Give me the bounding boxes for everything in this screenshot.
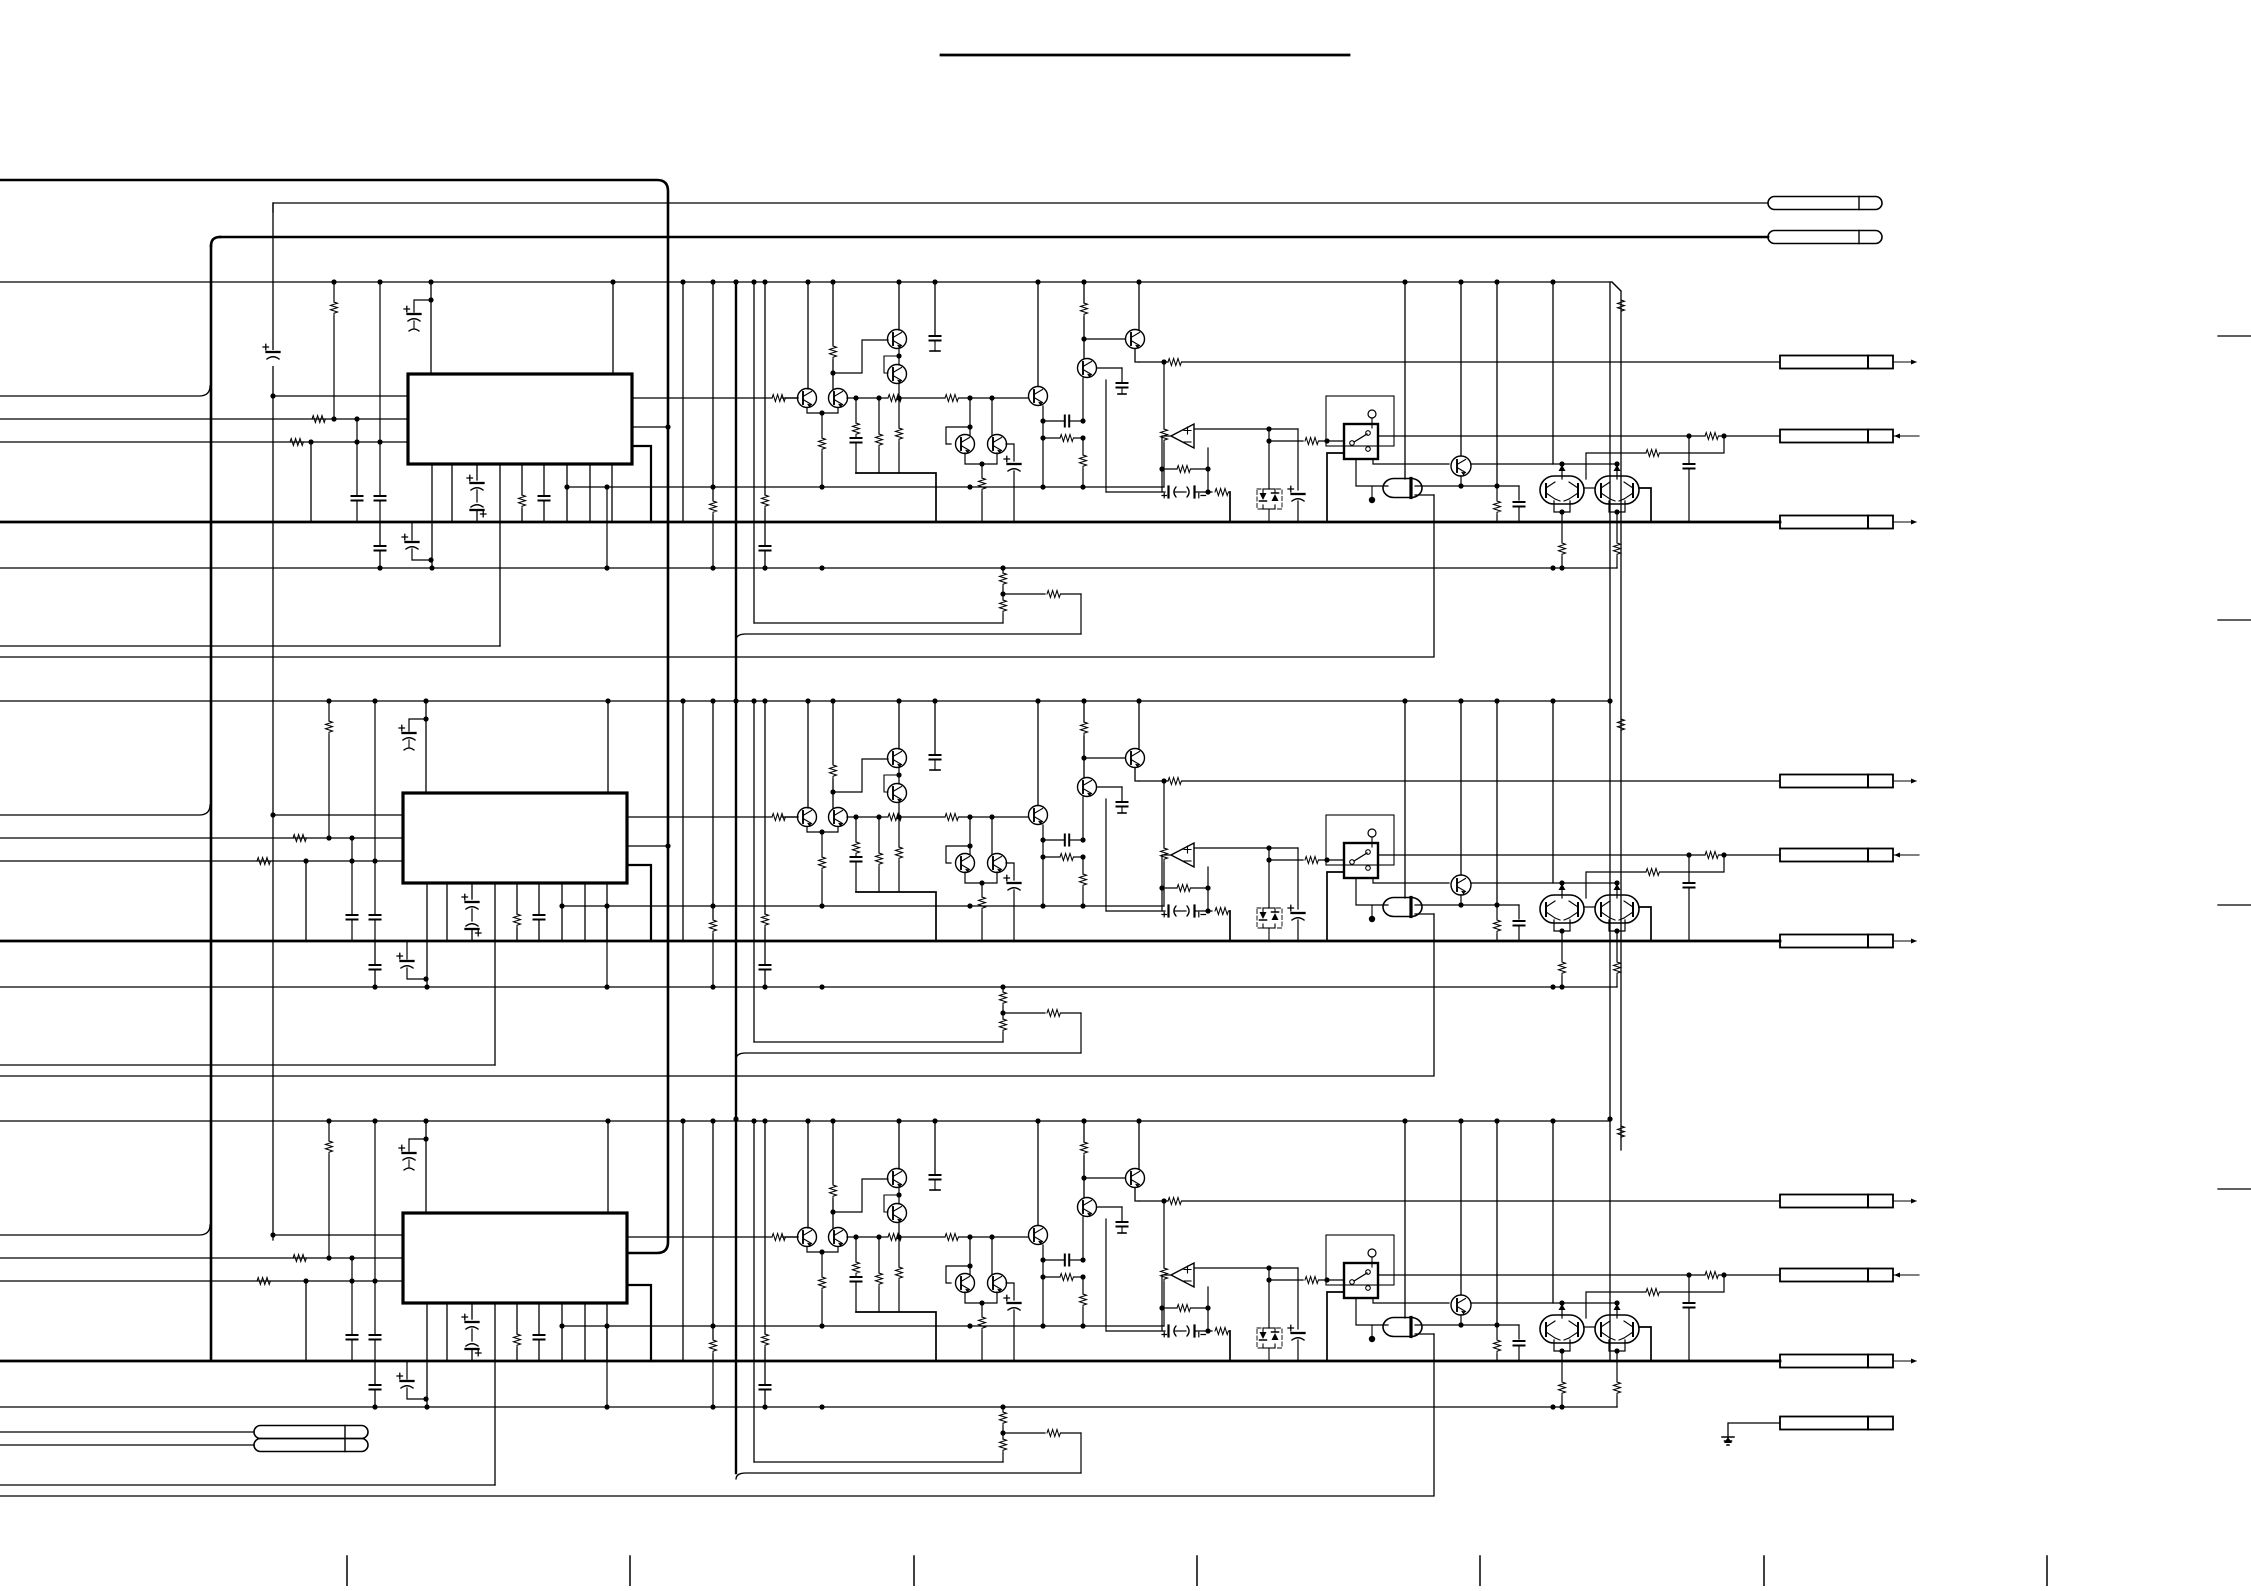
ch1 Q5 loop [946,424,973,444]
ch1 ecap x1014 [1004,456,1021,522]
ch3 Q6 right [1006,1283,1014,1300]
ch1 Q1 [888,330,907,349]
ch2 sw outer [1326,815,1394,865]
ch1 rail xq10 [1550,279,1565,479]
ch2 out3 [627,865,651,941]
ch1 rail x754 [751,279,756,623]
ch3 opamp U [1171,1263,1194,1287]
ch2 pin b2 [446,883,448,941]
connector P5 bottom right [1780,1417,1893,1430]
ch2 rail Q7c [1035,698,1040,805]
ch2 thick elbow [856,892,936,941]
ch1 q10 q11 link [1584,487,1595,489]
ch1 rail x713 [710,279,717,570]
ch2 out2 [627,843,671,848]
ch2 rail Q1 [896,698,901,749]
ch2 rail x683 [680,698,685,941]
ch2 sw bottom [1356,878,1388,922]
ch3 fb loop r [1586,1275,1724,1318]
ch2 Q11 down [1609,920,1625,941]
connector P1 top [1768,197,1882,210]
ch2 cap stub x935 [930,698,941,770]
node dot 1610/701 [1607,698,1612,703]
ch3 rail Q4 [830,1118,837,1228]
ch1 pin b5 [519,464,526,522]
fold mark 1 [2218,335,2251,337]
ch1 Q34 join [807,408,838,487]
ch3 Q7 emitter [1080,1217,1087,1326]
ch3 rail xq10 [1550,1118,1565,1318]
connector P4 [254,1439,368,1452]
ruler tick 7 [2046,1556,2048,1586]
ch3 ecap x1298 [1288,1268,1305,1361]
ch3 wire in1 [0,1225,210,1235]
ch1 tail3 [0,645,500,647]
ch2 conn3 [1780,935,1917,948]
ch3 wire in1b [270,1232,403,1237]
ch2 hook inner [754,1041,1003,1043]
ch1 out1 [632,395,798,402]
ch3 Q11 thick [1639,1327,1651,1361]
ch2 opamp in+ [1194,845,1298,850]
ch3 sw outer [1326,1235,1394,1285]
ch1 hook inner [754,622,1003,624]
ch1 q12 link [830,340,888,376]
ch2 Q7 [1078,778,1097,797]
ch2 Q8 emitter [1135,768,1139,781]
ch2 rail Q6 [991,817,993,854]
ch3 opamp in+ [1194,1265,1298,1270]
ch2 conn1 [1780,775,1917,788]
ch2 GND bus [0,940,1780,943]
ch3 res below bus 2 [1614,1361,1621,1407]
ch2 sw out line [1378,852,1780,859]
ch3 out1 [627,1234,798,1241]
ch1 rail Q1 [896,279,901,330]
ch3 rail x380 [370,1118,381,1361]
ch1 ecap x1298 [1288,429,1305,522]
node dot 1610/1119 [1607,1116,1612,1121]
ch3 Q34 join [807,1247,838,1326]
ground [1722,1423,1780,1445]
ch3 Q2 [888,1204,907,1223]
ch2 Q9 left [1373,878,1615,883]
ch3 Q5 loop [946,1263,973,1283]
title underline [941,54,1349,57]
ch1 rail Q7 [1081,279,1088,358]
ch2 pin b9 [606,883,608,941]
ch2 rail x765 [762,698,769,941]
ch1 res below bus 2 [1614,522,1621,568]
ch1 Q6 right [1006,444,1014,461]
ch2 rail xq11 [1614,880,1621,898]
ch1 Q11 [1595,476,1639,504]
ch1 IC top pin2 [610,279,615,374]
ch2 rail xq10 [1550,698,1565,898]
ch1 base line [782,395,1028,402]
ch2 q10 q11 link [1584,906,1595,908]
ch3 pin b6 [534,1303,545,1361]
ch1 IC U1 [408,374,632,464]
ch3 node in3 [303,1278,308,1361]
ch1 Q12 join [884,348,902,373]
ch1 pin b6 [539,464,550,522]
ch2 Q7c [1029,806,1048,825]
ch2 res below bus 1 [1559,941,1566,990]
ch3 rail x1495 [1494,1118,1501,1361]
connector P2 top [1768,231,1882,244]
ch1 res below bus 1 [1559,522,1566,571]
ch2 rail Q8 [1136,698,1141,749]
ch2 Q56 join [965,872,997,941]
wire input B thick [220,236,1768,239]
ch1 tail2 [1000,591,1081,635]
ch3 Q3 [798,1228,817,1247]
ch3 rail Q1 [896,1118,901,1169]
ch3 Q8 [1126,1169,1145,1188]
ch1 switch S [1344,410,1378,459]
ch2 tail2 [1000,1010,1081,1054]
ch3 IC U3 [403,1213,627,1303]
ch1 tail4 [0,495,1434,657]
ch1 rail Q7c [1035,279,1040,386]
series cap on net A [263,344,280,366]
ch2 IC top cap [399,698,429,793]
ch2 out line A [1139,778,1780,785]
ch3 sw gnd thick [1327,1292,1344,1361]
ch1 pin b2 [451,464,453,522]
ch2 top rail [0,700,1610,702]
ch3 conn1 [1780,1195,1917,1208]
ch3 IC top pin2 [605,1118,610,1213]
ch2 rail x1457 [1458,698,1463,875]
ch1 cap below bus x765 [760,522,771,568]
ch1 pin b8 [589,464,591,522]
ch2 IC top pin2 [605,698,610,793]
ch3 ecap bl2 [397,1361,426,1399]
ch2 rail x334 [326,698,333,840]
ch1 rail x683 [680,279,685,522]
ch3 IC top cap [399,1118,429,1213]
ch2 tail1 [0,984,1617,989]
connector P3 [254,1426,368,1439]
ch2 ecap bl2 [397,941,426,979]
ch3 rail xq11 [1614,1300,1621,1318]
ruler tick 1 [346,1556,348,1586]
ch1 Q2 [888,365,907,384]
ch1 res column 1164 [1161,359,1168,487]
ch2 Q5 [956,854,975,873]
ch3 rc block [1040,1245,1085,1326]
ch1 Q11 down [1609,501,1625,522]
ch2 sw line [1266,848,1344,908]
ch1 Q7c [1029,387,1048,406]
ch1 rc block [1040,406,1085,487]
ch3 rail Q6 [991,1237,993,1274]
ruler tick 2 [629,1556,631,1586]
ch2 Q3 [798,808,817,827]
ch3 switch S [1344,1249,1378,1298]
ch2 rail Q3 [805,698,810,808]
ch1 drop1 [851,398,862,473]
ch1 conn1 [1780,356,1917,369]
ch2 cap x1689 [1684,855,1695,941]
ch2 node in3 [303,858,308,941]
ch1 drop2 [876,398,883,473]
ch1 IC top cap [404,279,434,374]
ch1 dgate [1383,479,1422,498]
ch1 rail Q4 [830,279,837,389]
ch1 rail x1405 [1402,279,1407,479]
ch2 Q11 thick [1639,907,1651,941]
ch3 zener box [1257,1328,1282,1361]
ch3 base line [782,1234,1028,1241]
ch2 tail rescol [1000,984,1007,1042]
ch3 rail x357 [347,1255,358,1361]
ch3 Q9 left [1373,1298,1615,1303]
ch1 rail x765 [762,279,769,522]
ch1 dgate out [1415,476,1525,522]
ch1 Q9 [1451,456,1471,476]
ch3 pin b3 [462,1303,481,1361]
ch3 res column 1164 [1161,1198,1168,1326]
ch1 Q8 [1126,330,1145,349]
ch1 pin b3 [467,464,486,522]
ch2 fb loop r [1586,855,1724,898]
ch1 out line A [1139,359,1780,366]
ch2 rail x1405 [1402,698,1407,898]
ch1 out2 [632,424,671,429]
ch3 rail x683 [680,1118,685,1361]
ch2 pin b4 [494,883,496,1065]
ch1 rail x357 [352,416,363,522]
ch3 rail x754 [751,1118,756,1462]
ch2 pin b7 [559,883,564,941]
ch1 hook outer [736,634,1081,640]
ch2 line487 [562,903,1164,908]
ch3 opamp fb [1159,1275,1210,1331]
ch2 wire in1 [0,805,210,815]
ch2 Q2 down [896,802,903,892]
ch3 rail x334 [326,1118,333,1260]
ch2 wire in3 [0,858,403,865]
vertical rail x1610 [1609,282,1611,1360]
ch3 Q1 [888,1169,907,1188]
ch3 Q7c [1029,1226,1048,1245]
ch2 Q4 [829,808,848,827]
ch1 pin b1 [428,464,434,571]
ch2 base line [782,814,1028,821]
ch1 node in3 [308,439,313,522]
ch1 Q6 [988,435,1007,454]
ch2 pin b3 [462,883,481,941]
ch3 tail rescol [1000,1404,1007,1462]
fold mark 4 [2218,1188,2251,1190]
ch1 wire in2 [0,416,408,423]
ch2 rail Q7 [1081,698,1088,777]
ch2 Q9 [1451,875,1471,895]
ch2 Q6 [988,854,1007,873]
ch3 cap stub x1122 [1097,1207,1128,1233]
ch3 tail2 [1000,1430,1081,1474]
ch1 rail Q8 [1136,279,1141,330]
ch2 drop2 [876,817,883,892]
ch2 rail x1495 [1494,698,1501,941]
ch1 line487 [567,484,1164,489]
ch3 tail3 [0,1484,495,1486]
ch1 rail x1457 [1458,279,1463,456]
ch3 rail x1457 [1458,1118,1463,1295]
ch1 rail x334 [331,279,338,421]
ch1 Q5 [956,435,975,454]
ch1 zener box [1257,489,1282,522]
ch2 Q8 left [1081,755,1125,760]
vertical rail x736 thick [733,279,738,1473]
ch2 thick elbow2 [1229,911,1231,941]
ch1 opamp in+ [1194,426,1298,431]
ch3 Q10 [1540,1315,1584,1343]
ch1 Q8 left [1081,336,1125,341]
ch1 pin b9 [611,464,613,522]
ch2 Q2 [888,784,907,803]
ch1 wire in1 [0,386,210,396]
ch1 Q2 down [896,383,903,473]
ch3 Q11 down [1609,1340,1625,1361]
ch3 wire in2 [0,1255,403,1262]
ch3 top rail [0,1120,1610,1122]
ch1 Q9 left [1373,459,1615,464]
ch2 Q5 loop [946,843,973,863]
ch3 res below bus 1 [1559,1361,1566,1410]
ch2 Q10 down [1554,920,1570,941]
ch2 Q1 [888,749,907,768]
ch1 cap bl1 [375,522,386,571]
ch3 dgate out [1415,1315,1525,1361]
ch2 ecap x1014 [1004,875,1021,941]
ch2 opamp caps [1106,799,1230,917]
ch2 Q12 join [884,767,902,792]
ch1 GND bus [0,521,1780,524]
ch3 Q9 [1451,1295,1471,1315]
ch3 cap below bus x765 [760,1361,771,1407]
ch3 pin b7 [559,1303,564,1361]
ch3 rail Q7 [1081,1118,1088,1197]
ch2 drop1 [851,817,862,892]
ch3 Q8 left [1081,1175,1125,1180]
ch1 sw gnd thick [1327,453,1344,522]
ch2 rail x380 [370,698,381,941]
wire input A [273,203,1768,212]
ch1 cap stub x935 [930,279,941,351]
ch2 dgate out [1415,895,1525,941]
ch2 IC U2 [403,793,627,883]
ch2 Q8 [1126,749,1145,768]
ch2 Q6 right [1006,863,1014,880]
ch2 dgate [1383,898,1422,917]
ch3 Q2 down [896,1222,903,1312]
ch2 hook outer [736,1053,1081,1059]
ch3 pin b5 [514,1303,521,1361]
ch1 wire in3 [0,439,408,446]
ch1 tail1 [0,565,1617,570]
ch3 wire in3 [0,1278,403,1285]
ch1 Q8 emitter [1135,349,1139,362]
ch2 cap bl1 [370,941,381,990]
ch1 thick elbow [856,473,936,522]
ch3 thick elbow [856,1312,936,1361]
ch3 Q12 join [884,1187,902,1212]
wire V+ top rail [0,180,668,1253]
ch3 rail x765 [762,1118,769,1361]
vertical net B down thick [211,237,220,1360]
ch2 wire in1b [270,812,403,817]
ch3 rail Q7c [1035,1118,1040,1225]
ch1 rail Q3 [805,279,810,389]
ch2 zener box [1257,908,1282,941]
ch3 Q8 emitter [1135,1188,1139,1201]
ch1 pin b7 [564,464,569,522]
ch3 cap x1689 [1684,1275,1695,1361]
ch2 node b7a [604,903,609,989]
ch3 Q10 down [1554,1340,1570,1361]
ch2 out1 [627,814,798,821]
ch1 rail Q6 [991,398,993,435]
ch3 hook inner [754,1461,1003,1463]
ch1 tail rescol [1000,565,1007,623]
ch2 q12 link [830,759,888,795]
ch1 Q7 [1078,359,1097,378]
ch1 Q3 [798,389,817,408]
ch2 Q10 [1540,895,1584,923]
ch3 drop1 [851,1237,862,1312]
wire to P4 [0,1444,254,1446]
ch3 Q6 [988,1274,1007,1293]
ch3 Q5 [956,1274,975,1293]
ch3 Q11 [1595,1315,1639,1343]
ch3 q10 q11 link [1584,1326,1595,1328]
ch3 Q7 [1078,1198,1097,1217]
ch2 rail Q5 [969,817,971,854]
ch1 Q7 emitter [1080,378,1087,487]
ch3 opamp caps [1106,1219,1230,1337]
ch2 rail Q4 [830,698,837,808]
ch1 fb loop r [1586,436,1724,479]
ch1 thick elbow2 [1229,492,1231,522]
ch3 out3 [627,1285,651,1361]
ch3 node b7a [604,1323,609,1409]
ch3 out line A [1139,1198,1780,1205]
ch2 Q34 join [807,827,838,906]
ch1 conn2 [1780,430,1919,443]
ch1 conn3 [1780,516,1917,529]
ch3 tail1 [0,1404,1617,1409]
ch1 pin b4 [499,464,501,646]
ch1 sw outer [1326,396,1394,446]
ch1 node b7a [604,484,609,570]
fold mark 3 [2218,904,2251,906]
ch2 res below bus 2 [1614,941,1621,987]
ch1 opamp fb [1159,436,1210,492]
ch1 Q10 [1540,476,1584,504]
ruler tick 3 [913,1556,915,1586]
ch3 q12 link [830,1179,888,1215]
ch2 rail x754 [751,698,756,1042]
ch1 opamp U [1171,424,1194,448]
ch2 sw gnd thick [1327,872,1344,941]
ch2 pin b1 [423,883,429,990]
ch3 conn2 [1780,1269,1919,1282]
vertical net A down [272,203,274,1240]
